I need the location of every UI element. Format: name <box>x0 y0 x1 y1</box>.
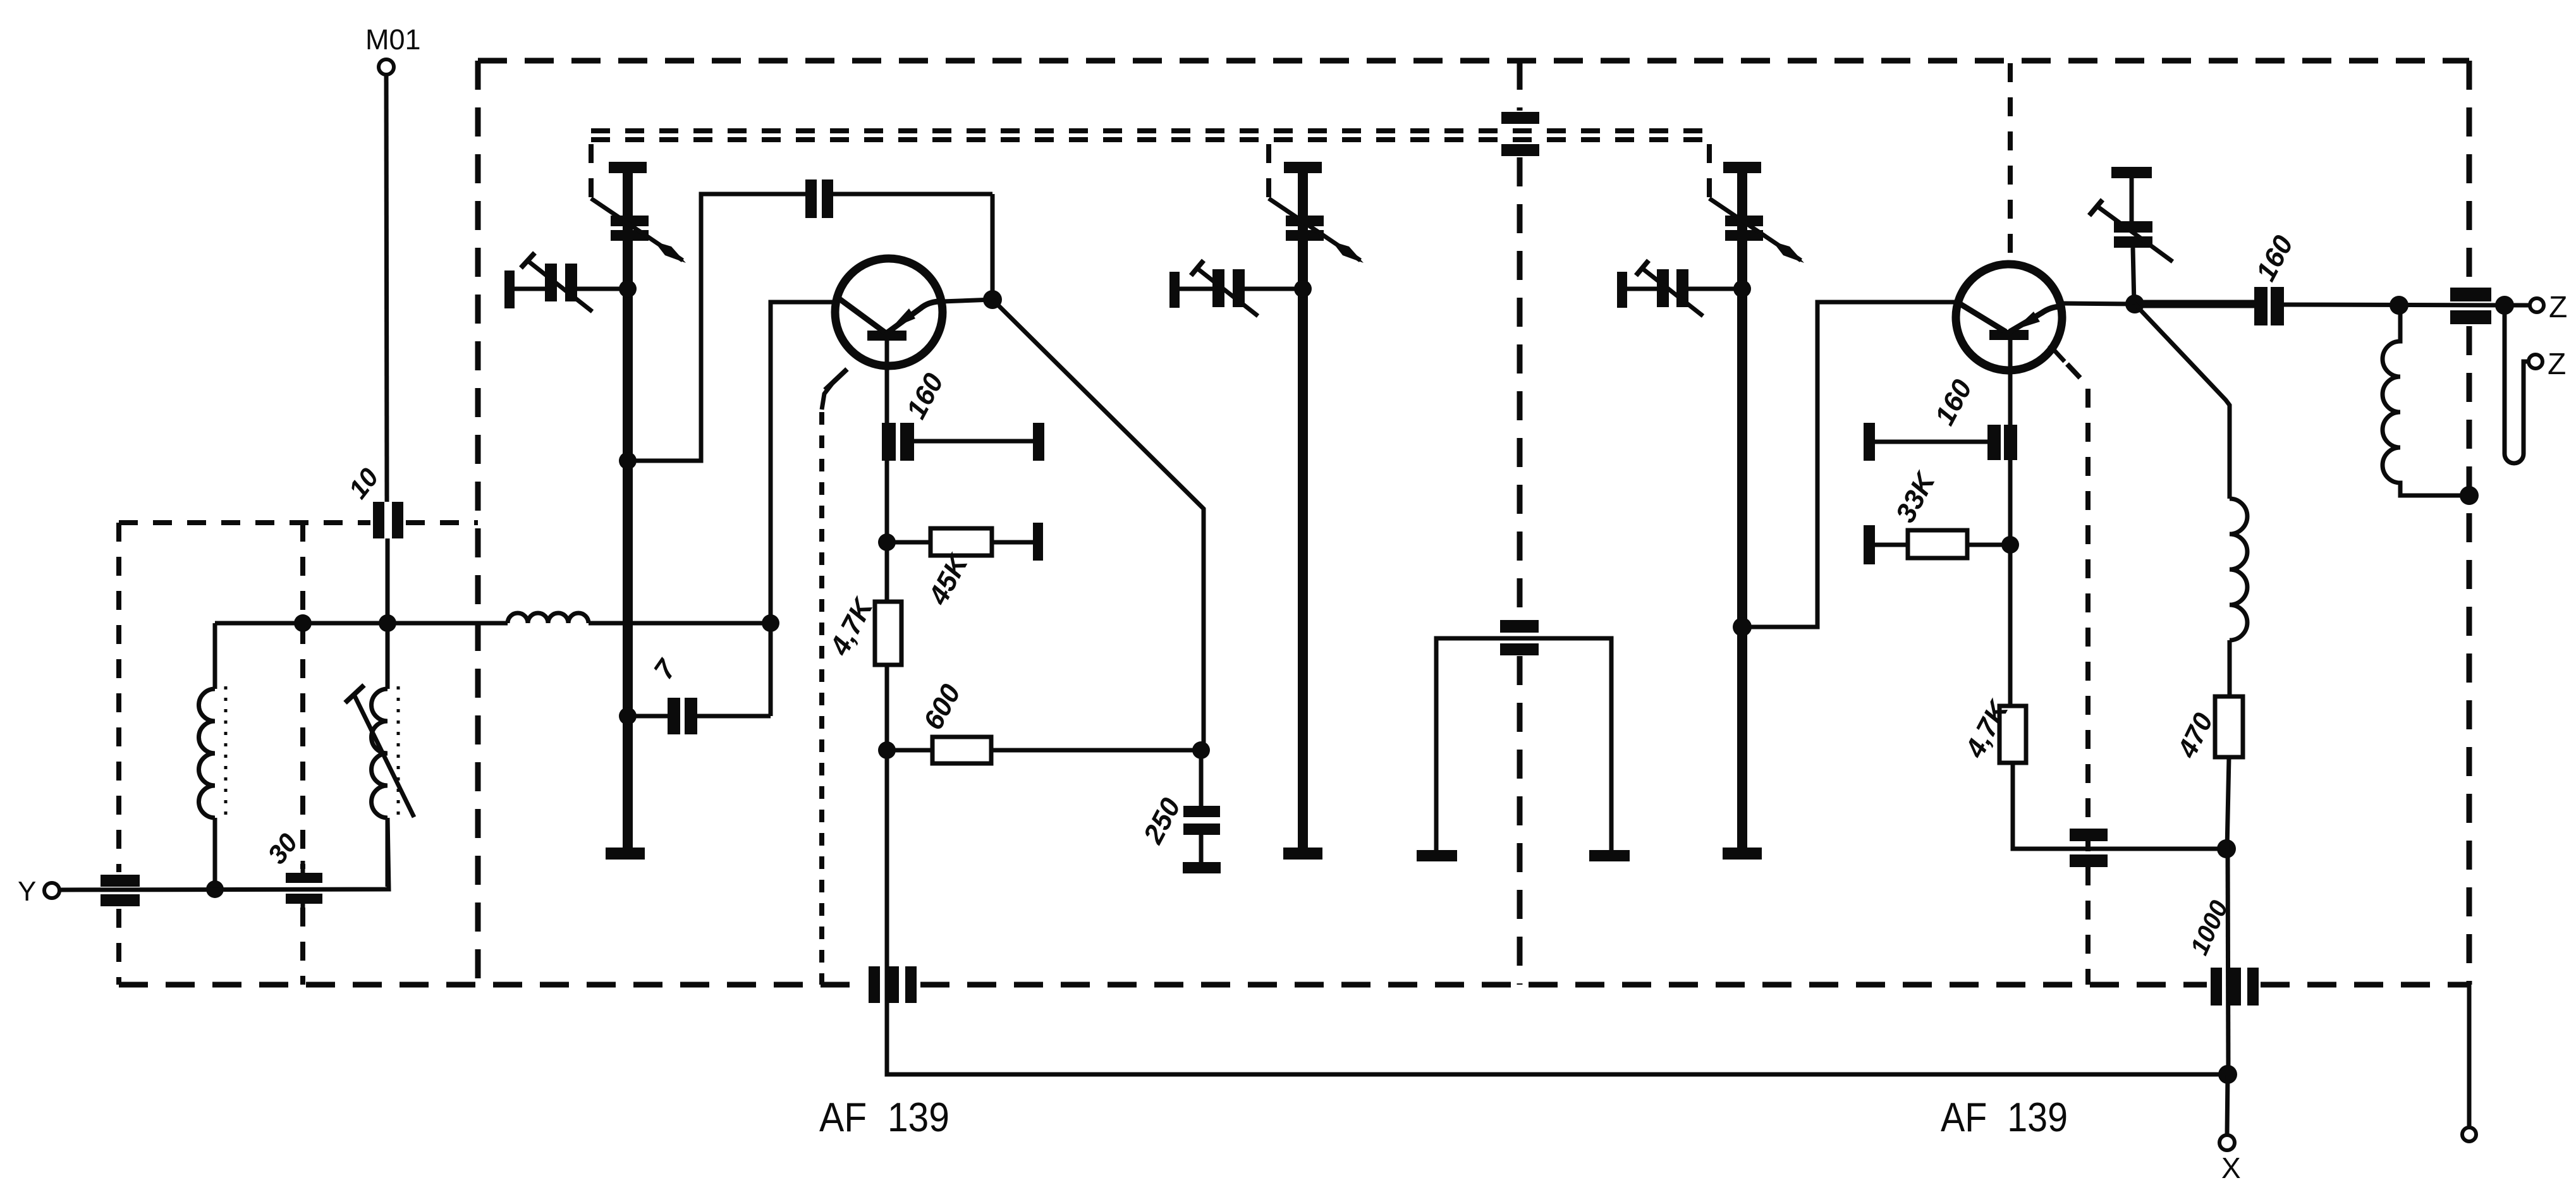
antenna shield box left edge <box>116 523 121 985</box>
node Z coil tap <box>2390 296 2408 315</box>
wire to terminal X <box>2227 1074 2228 1135</box>
gang stub section 1 <box>589 144 594 197</box>
antenna coil L1 <box>213 623 217 689</box>
node X junction <box>2218 1065 2237 1084</box>
capacitor 250 to chassis <box>1199 750 1204 806</box>
transistor T2 AF139 <box>1956 264 2062 370</box>
centre partition lower dashes <box>1517 656 1523 985</box>
capacitor 30 on partition <box>301 861 305 873</box>
wire shield box to chassis terminal <box>2467 985 2472 1127</box>
svg-text:Y: Y <box>18 876 36 907</box>
resistor 470 <box>2215 696 2243 757</box>
chassis bar right <box>1589 850 1630 861</box>
node Z hairpin <box>2495 296 2514 315</box>
resistor 600 <box>887 748 932 753</box>
tuning arrow section 1 <box>591 198 683 260</box>
wire coil top bus <box>215 621 388 626</box>
T2 collector slant <box>1960 304 2006 332</box>
wire collector diagonal feed <box>992 300 1204 750</box>
node resonator 3 tap <box>1733 617 1752 636</box>
adjusting slug lever of coil L2 <box>345 685 364 703</box>
wire M01 down to feedthrough <box>386 75 387 502</box>
node emitter feed / choke <box>762 614 779 632</box>
node trimmer 3 on resonator <box>1733 280 1751 298</box>
trimmer capacitor section 2 <box>1169 272 1180 308</box>
node trimmer 2 on resonator <box>1294 280 1312 298</box>
wire 160 to Z line <box>2284 305 2529 305</box>
terminal chassis bottom right <box>2462 1127 2476 1141</box>
T2 shield lead dashed <box>2049 345 2065 362</box>
node L1 bottom on Y wire <box>206 880 224 898</box>
terminal X <box>2219 1135 2235 1150</box>
tuning arrow section 2 <box>1269 198 1360 260</box>
trimmer capacitor output section <box>2111 167 2152 178</box>
T2 top dashed lead to shield <box>2008 63 2013 265</box>
capacitor 160 base bypass <box>882 423 896 461</box>
node collector feed <box>1192 741 1210 759</box>
resistor 4.7K T2 <box>1999 706 2026 763</box>
trimmer 1 lever <box>521 253 535 268</box>
resistor 33K <box>1967 543 2005 547</box>
node antenna coils top <box>379 614 396 632</box>
T2 base electrode <box>1989 330 2029 340</box>
resonator line 1 <box>609 162 647 173</box>
chassis bridge capacitor on centre partition <box>1436 638 1611 850</box>
svg-text:Z: Z <box>2548 348 2566 381</box>
wire tap to coupling capacitor <box>628 194 805 461</box>
feedthrough capacitor on box bottom edge <box>869 966 880 1003</box>
T1 base line down <box>885 341 889 750</box>
resonator line 2 <box>1284 162 1322 173</box>
node 33K junction <box>2001 536 2019 554</box>
T1 emitter wire to bottom feedthrough <box>887 750 2227 1074</box>
node under 470 <box>2217 839 2236 858</box>
resistor 45K <box>887 540 931 545</box>
trimmer 2 lever <box>1191 260 1204 276</box>
T1 emitter slant with arrow <box>888 301 939 332</box>
wire node to 1000 feedthrough and X <box>2228 849 2228 1074</box>
hairpin coupling loop to Z lower <box>2505 305 2529 463</box>
resonator line 3 <box>1723 162 1761 173</box>
trimmer capacitor section 3 <box>1617 272 1627 308</box>
wire M01 feedthrough to coil node <box>386 538 390 623</box>
outer shield box right edge <box>2467 61 2472 985</box>
outer shield box top edge <box>478 58 2469 64</box>
output resonant coil <box>2383 305 2462 495</box>
wire Y input <box>59 818 389 890</box>
resonator 3 rotor tabs <box>1725 216 1763 226</box>
wire choke to emitter line <box>589 621 771 626</box>
svg-text:M01: M01 <box>365 23 421 56</box>
node coil to shield <box>2460 486 2479 505</box>
RF choke <box>508 613 589 623</box>
antenna shield partition line <box>300 523 305 985</box>
capacitor 160 output coupling <box>2254 287 2268 325</box>
tuning gang coupling line (double dashed) <box>591 128 1714 133</box>
wire T2 collector to node <box>2062 303 2135 304</box>
capacitor 7 resonator tap to emitter <box>619 707 637 725</box>
trimmer capacitor section 1 <box>504 270 515 308</box>
thick wire collector node to capacitor 160 <box>2135 300 2256 308</box>
feedthrough capacitor on right box edge <box>2450 288 2491 301</box>
T1 shield lead (dashed to chassis) <box>825 369 847 390</box>
antenna coil L2 adjustable <box>386 623 390 689</box>
output trimmer lever <box>2089 200 2103 216</box>
T1 collector slant <box>839 299 885 332</box>
resonator 1 rotor tabs <box>611 216 649 226</box>
feedthrough capacitor 1000 on box bottom edge <box>2211 968 2222 1006</box>
antenna shield box top edge <box>119 520 478 525</box>
svg-text:AF 139: AF 139 <box>819 1094 949 1140</box>
gang stub section 2 <box>1266 144 1271 197</box>
chassis bar left <box>1417 850 1457 861</box>
wire 470 to node <box>2227 757 2229 849</box>
feedthrough capacitor 10 on antenna box top edge <box>373 502 384 538</box>
node T2 collector <box>2125 295 2144 313</box>
node resonator 1 tap <box>619 452 637 470</box>
wire tap to T2 base <box>1742 302 1957 627</box>
node base bias <box>878 533 896 551</box>
svg-text:Z: Z <box>2549 291 2567 324</box>
wire choke feed <box>388 621 508 626</box>
svg-text:X: X <box>2221 1152 2241 1184</box>
node trimmer 1 on resonator <box>619 280 637 298</box>
feedthrough capacitor on antenna box left edge <box>101 875 140 887</box>
T2 emitter line down <box>2008 340 2013 706</box>
svg-text:AF 139: AF 139 <box>1941 1094 2068 1140</box>
T1 emitter feed wire <box>771 302 835 716</box>
outer shield box left edge <box>475 61 481 985</box>
output coil <box>2230 499 2247 640</box>
transistor T1 AF139 <box>835 258 943 366</box>
feedthrough capacitor on T2 shield dashes <box>2070 829 2108 841</box>
terminal Z lower <box>2529 355 2542 368</box>
output coil feed diagonal <box>2135 304 2230 499</box>
feedthrough capacitor on gang line <box>1517 61 1523 111</box>
gang stub section 3 <box>1707 144 1712 197</box>
node partition crossing <box>294 614 312 632</box>
resistor 4.7K emitter chain <box>875 602 901 665</box>
node T1 collector <box>983 290 1002 309</box>
outer shield box bottom edge <box>119 982 2469 988</box>
wire 4.7K to node under 470 <box>2013 763 2226 849</box>
terminal Z upper <box>2530 298 2544 312</box>
resonator 2 rotor tabs <box>1286 216 1324 226</box>
capacitor 160 emitter bypass <box>1987 425 2001 460</box>
T1 base electrode <box>867 331 906 341</box>
coupling capacitor to T1 collector <box>805 179 817 218</box>
trimmer 3 lever <box>1636 260 1649 276</box>
node 600 ohm junction <box>878 741 896 759</box>
tuning arrow section 3 <box>1709 198 1801 260</box>
T2 emitter slant with arrow <box>2010 307 2060 332</box>
wire T1 collector to node <box>943 300 992 301</box>
